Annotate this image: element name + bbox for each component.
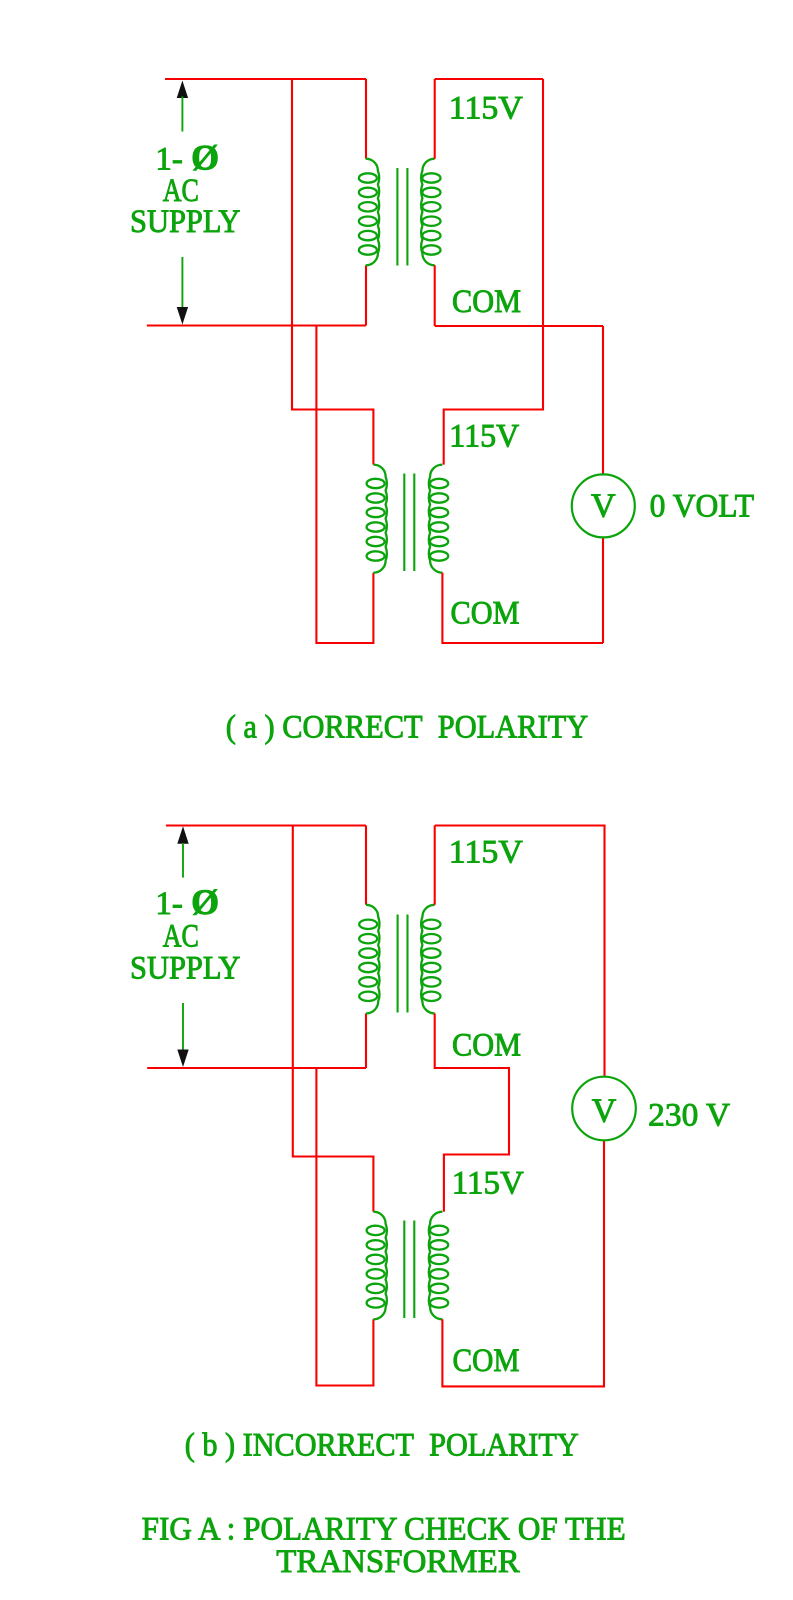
wire: (a) left vertical from top supply to lower primary — [292, 79, 373, 465]
wire: (a) lower secondary COM lead to voltmeter bottom — [442, 573, 603, 643]
transformer T2 core — [403, 474, 405, 572]
wire: (a) upper secondary top lead — [434, 79, 436, 159]
wire: (b) upper primary top lead — [365, 826, 367, 905]
transformer T1 primary winding — [366, 159, 380, 266]
transformer T1 core — [396, 168, 398, 266]
svg-text:( b ) INCORRECT POLARITY: ( b ) INCORRECT POLARITY — [185, 1427, 579, 1463]
transformer T2 secondary winding — [429, 465, 443, 573]
wire: (b) secondary 115V top link to voltmeter — [435, 826, 605, 1077]
dimension arrow up (b) — [177, 826, 188, 844]
wire: (a) upper transformer primary top lead — [365, 79, 367, 159]
wire: (b) upper secondary COM lead with step to lower secondary — [435, 1013, 509, 1211]
svg-text:1- Ø: 1- Ø — [155, 138, 219, 178]
wire: (a) voltmeter bottom lead — [602, 537, 604, 643]
svg-text:115V: 115V — [452, 1166, 524, 1202]
wire: (b) upper primary bottom lead — [365, 1013, 367, 1068]
wire: (a) top supply line — [165, 78, 366, 80]
svg-text:0 VOLT: 0 VOLT — [650, 488, 754, 524]
svg-text:( a ) CORRECT POLARITY: ( a ) CORRECT POLARITY — [226, 709, 589, 745]
wire: (a) voltmeter top lead — [602, 326, 604, 475]
svg-text:COM: COM — [453, 1343, 520, 1379]
dimension arrow down (b) — [182, 1003, 184, 1051]
voltmeter V2 circle — [572, 1077, 636, 1141]
transformer T1 secondary winding — [421, 159, 435, 266]
svg-text:1- Ø: 1- Ø — [155, 882, 219, 922]
svg-text:COM: COM — [452, 284, 521, 320]
transformer T3 secondary winding — [421, 905, 435, 1014]
voltmeter V1 circle — [572, 474, 635, 537]
wire: (b) lower secondary COM lead to voltmeter bottom — [442, 1140, 604, 1386]
wire: (a) secondary top link 115V — [435, 78, 543, 80]
svg-text:AC: AC — [163, 919, 199, 955]
transformer T4 primary winding — [373, 1212, 387, 1320]
svg-text:FIG A : POLARITY CHECK OF THE: FIG A : POLARITY CHECK OF THE — [142, 1511, 626, 1547]
transformer T4 secondary winding — [429, 1212, 443, 1320]
wire: (a) upper secondary COM lead — [434, 265, 436, 326]
svg-text:115V: 115V — [449, 834, 523, 870]
svg-text:115V: 115V — [449, 90, 523, 126]
wire: (b) upper secondary top lead — [434, 826, 436, 905]
dimension arrow up (a) — [177, 81, 188, 99]
wire: (b) bottom supply line — [147, 1067, 366, 1069]
wire: (a) upper transformer primary bottom lead — [365, 265, 367, 325]
wire: (b) lower primary return to bottom supply — [316, 1068, 373, 1386]
svg-text:COM: COM — [451, 596, 520, 632]
svg-text:SUPPLY: SUPPLY — [130, 204, 240, 240]
svg-text:230 V: 230 V — [648, 1097, 730, 1133]
wire: (b) left vertical from top supply to lower primary — [293, 826, 374, 1212]
transformer T3 primary winding — [366, 905, 380, 1014]
svg-text:V: V — [592, 1093, 617, 1130]
transformer T4 core — [403, 1221, 405, 1319]
wire: (a) COM to voltmeter branch horizontal — [435, 325, 603, 327]
wire: (a) lower primary return to bottom supply — [316, 326, 373, 644]
transformer T3 core — [397, 915, 399, 1013]
svg-text:115V: 115V — [449, 418, 519, 454]
svg-text:SUPPLY: SUPPLY — [130, 951, 240, 987]
svg-text:TRANSFORMER: TRANSFORMER — [276, 1544, 520, 1580]
svg-text:V: V — [591, 488, 616, 525]
transformer T2 primary winding — [373, 465, 387, 573]
wire: (b) top supply line — [166, 824, 366, 826]
dimension arrow down (a) — [181, 257, 183, 308]
wire: (a) bottom supply line — [147, 324, 366, 326]
svg-text:COM: COM — [452, 1028, 521, 1064]
wire: (a) right vertical with step down to lower secondary — [444, 79, 543, 465]
